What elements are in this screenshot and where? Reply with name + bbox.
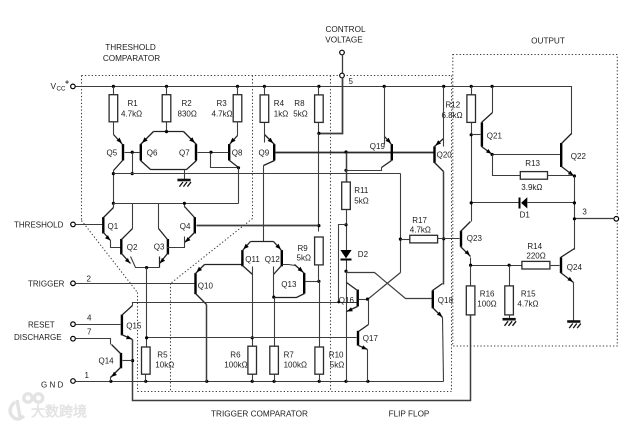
svg-text:5kΩ: 5kΩ (293, 110, 307, 119)
dotted box threshold comparator top edge (82, 75, 452, 77)
svg-text:7: 7 (87, 327, 92, 336)
junction Q16 base line (337, 301, 340, 304)
wire ground rail (76, 381, 444, 383)
wire Q23 collector up (471, 222, 472, 223)
resistor R4 1k (264, 87, 266, 95)
wire Q12 base to Q13 emitter (283, 265, 296, 266)
wire Q18 emitter down to flip flop ground return (443, 318, 444, 382)
svg-text:D2: D2 (358, 250, 369, 259)
wire Q23 emitter down to R14/R16 node (471, 258, 522, 266)
svg-text:100kΩ: 100kΩ (224, 360, 247, 369)
wire trigger to Q10 base (76, 283, 195, 285)
transistor Q10 (194, 273, 196, 294)
svg-text:Q12: Q12 (265, 255, 281, 264)
ground symbol under R15 (503, 318, 516, 321)
junction Q4 base node (317, 224, 320, 227)
wire Q24 emitter to ground (573, 283, 575, 322)
wire Q13 base to divider (306, 281, 319, 283)
junction Q12/Q13 collectors to R7 (272, 296, 275, 299)
wire Q19 emitter to R11 node (347, 168, 382, 171)
svg-text:4.7kΩ: 4.7kΩ (410, 225, 431, 234)
wire D2 node down to ground rail (346, 272, 348, 382)
svg-text:CONTROL: CONTROL (325, 25, 365, 34)
wire R9 to junction (318, 265, 320, 282)
wire Q17 collector up to Q16 base node (368, 300, 370, 325)
svg-text:5kΩ: 5kΩ (297, 253, 311, 262)
wire R14 right to Q24 base (550, 265, 560, 267)
wire Q4 emitter up to bus (184, 204, 186, 208)
resistor R7 100k (270, 346, 279, 374)
wire Q16 base right side (359, 299, 368, 301)
transistor Q16 (357, 290, 359, 307)
svg-text:R11: R11 (354, 186, 369, 195)
wire R6 bottom to ground rail (252, 375, 254, 382)
junction Q7/Q8 bases (209, 151, 212, 154)
svg-text:5kΩ: 5kΩ (354, 196, 368, 205)
wire Q1 collector to Q2 base (111, 241, 121, 248)
transistor Q23 (460, 231, 462, 247)
svg-text:Q13: Q13 (281, 280, 297, 289)
svg-text:R8: R8 (294, 99, 305, 108)
svg-text:R7: R7 (284, 350, 295, 359)
junction R11/D2 node to flip flop input (344, 223, 347, 226)
wire Q5 collector down to Q1 emitter (113, 171, 115, 208)
transistor Q3 (167, 239, 169, 254)
dotted channel left vertical (137, 293, 139, 392)
wire Q11 collector down to R6 (252, 267, 254, 347)
wire D2 node to Q18 base (347, 273, 432, 299)
resistor R12 6.8k (471, 87, 473, 95)
wire Q4 base to control voltage node (197, 225, 319, 227)
dotted flip flop left edge (330, 76, 332, 392)
transistor Q6 (140, 144, 142, 160)
svg-text:COMPARATOR: COMPARATOR (103, 54, 160, 63)
svg-text:1: 1 (85, 371, 90, 380)
junction Q4 emitter on bus (183, 202, 186, 205)
svg-text:+: + (65, 80, 69, 87)
svg-text:100Ω: 100Ω (477, 300, 496, 309)
wire down to R13 left (493, 155, 521, 176)
wire Q10 emitter to Q11 base (205, 264, 242, 266)
wire comparator base bus Q9-Q19-Q20 (276, 152, 434, 154)
svg-text:OUTPUT: OUTPUT (531, 37, 565, 46)
svg-text:Q2: Q2 (127, 243, 138, 252)
svg-text:R1: R1 (128, 99, 139, 108)
junction divider R9/R10/Q13 (317, 280, 320, 283)
svg-text:Q24: Q24 (567, 263, 583, 272)
wire R17 right to Q23 base (438, 238, 460, 240)
dotted channel right vertical (170, 284, 172, 392)
wire Q5/Q6 bases down to mirror line (132, 153, 134, 174)
wire Q14 emitter to ground rail (110, 377, 112, 382)
transistor Q14 (120, 353, 122, 368)
wire Q21 collector to rail (492, 87, 494, 113)
wire base bus tap down to R11 (346, 153, 348, 183)
svg-text:Q18: Q18 (438, 296, 454, 305)
svg-text:Q7: Q7 (179, 149, 190, 158)
junction Q5/Q6 bases (131, 151, 134, 154)
wire Q19 collector to rail (384, 87, 386, 145)
junction R16 top (469, 264, 472, 267)
svg-text:Q5: Q5 (107, 149, 118, 158)
wire Q6 collector to ground node (151, 169, 187, 171)
svg-text:Q22: Q22 (571, 152, 587, 161)
wire Q8 collector down to upper bus (238, 168, 240, 204)
wire Q11 base attach (241, 264, 243, 266)
svg-text:Q9: Q9 (259, 149, 270, 158)
transistor Q17 (357, 331, 359, 346)
junction Q21 emitter to R13 (491, 153, 494, 156)
svg-text:6.8kΩ: 6.8kΩ (442, 111, 463, 120)
junction Q5 collector / mirror line (112, 172, 115, 175)
resistor R3 4.7k (237, 87, 239, 95)
junction base bus to R11 (344, 150, 347, 153)
svg-text:R3: R3 (217, 99, 228, 108)
wire Q21 emitter to Q22 base and R13 (493, 154, 561, 156)
wire Q17 emitter to ground rail (367, 350, 369, 382)
svg-text:Q4: Q4 (180, 222, 191, 231)
svg-text:3: 3 (582, 208, 587, 217)
wire R13 right to Q22 emitter node (548, 175, 575, 177)
svg-text:5kΩ: 5kΩ (330, 360, 344, 369)
svg-text:FLIP FLOP: FLIP FLOP (389, 409, 430, 418)
diode D2 (340, 250, 351, 258)
junction R15 top (508, 264, 511, 267)
svg-text:R9: R9 (298, 244, 309, 253)
wire R5 bottom to ground rail (145, 375, 147, 382)
svg-text:R16: R16 (480, 289, 495, 298)
wire R10 to ground rail (319, 375, 321, 382)
junction R17 right / Q23 base / Q18 collector (442, 237, 445, 240)
svg-text:R12: R12 (446, 101, 461, 110)
svg-text:Q17: Q17 (363, 334, 379, 343)
svg-text:5: 5 (349, 77, 354, 86)
svg-text:R10: R10 (329, 350, 344, 359)
junction Q21 base node (470, 133, 473, 136)
transistor Q5 (122, 144, 124, 160)
svg-text:100kΩ: 100kΩ (284, 360, 307, 369)
svg-text:R15: R15 (521, 289, 536, 298)
wire Q5 emitter to R1 (113, 122, 115, 135)
svg-text:R17: R17 (412, 216, 427, 225)
resistor R17 4.7k (401, 239, 410, 241)
svg-text:CC: CC (57, 86, 66, 93)
transistor Q19 (391, 144, 393, 160)
watermark logo (10, 394, 43, 419)
dotted funnel left diagonal (82, 221, 138, 293)
wire tail down to R5 top (146, 268, 148, 347)
svg-text:R5: R5 (157, 350, 168, 359)
wire control voltage divider down to Q4 base node (318, 134, 320, 232)
wire Q1 emitter up (113, 204, 115, 208)
wire pin5 down to R8 bottom node (319, 78, 343, 134)
wire R7 bottom to ground rail (274, 375, 276, 382)
svg-text:830Ω: 830Ω (178, 110, 197, 119)
junction Q1 emitter node (112, 202, 115, 205)
wire Q11/Q12 emitter rail (251, 241, 274, 243)
transistor Q21 (481, 123, 483, 147)
wire Q12 collector down (273, 267, 275, 298)
resistor R1 4.7k (113, 87, 115, 95)
svg-text:Q3: Q3 (154, 243, 165, 252)
transistor Q11 (241, 250, 243, 266)
resistor R16 100 (466, 286, 475, 315)
transistor Q9 (273, 144, 275, 160)
svg-text:10kΩ: 10kΩ (155, 360, 174, 369)
svg-text:1kΩ: 1kΩ (274, 110, 288, 119)
svg-text:VOLTAGE: VOLTAGE (325, 36, 363, 45)
wire Q7-Q8 base tie (198, 152, 229, 154)
wire Q22 collector to rail corner (571, 135, 573, 137)
svg-text:R14: R14 (527, 242, 542, 251)
junction R5 tap (145, 336, 148, 339)
svg-text:TRIGGER COMPARATOR: TRIGGER COMPARATOR (211, 409, 308, 418)
wire R15 top (509, 266, 511, 286)
svg-text:3.9kΩ: 3.9kΩ (521, 183, 542, 192)
svg-text:RESET: RESET (28, 321, 55, 330)
dotted main box bottom edge (138, 391, 452, 393)
svg-text:Q11: Q11 (245, 255, 260, 264)
wire R8 bottom (318, 123, 320, 134)
resistor R11 5k (342, 182, 351, 210)
resistor R6 100k (248, 346, 257, 374)
transistor Q18 (432, 291, 434, 309)
svg-text:R6: R6 (230, 350, 241, 359)
diode D1 (472, 202, 520, 204)
wire D2 cathode to node (346, 261, 348, 272)
svg-text:4.7kΩ: 4.7kΩ (121, 110, 142, 119)
resistor R13 3.9k (520, 172, 547, 180)
wire Q3 collector up to bus (158, 204, 160, 229)
transistor Q24 (560, 257, 562, 273)
svg-text:4.7kΩ: 4.7kΩ (517, 300, 538, 309)
transistor Q22 (560, 143, 562, 167)
junction tail to R5 (145, 266, 148, 269)
wire Q21 base (472, 134, 481, 136)
svg-text:220Ω: 220Ω (526, 251, 545, 260)
wire Q15 emitter down and right to R16 bottom (133, 315, 471, 401)
svg-text:4: 4 (87, 314, 92, 323)
transistor Q12 (281, 250, 283, 266)
wire Q20 emitter down to R17/Q23/Q18 (443, 172, 445, 285)
dotted output box (453, 55, 618, 347)
svg-text:THRESHOLD: THRESHOLD (14, 221, 64, 230)
svg-text:R13: R13 (525, 159, 540, 168)
node pin 5 on boundary (340, 73, 345, 78)
svg-text:R4: R4 (274, 99, 285, 108)
svg-text:R2: R2 (182, 99, 193, 108)
wire Q24 collector up to pin3 node (574, 249, 576, 257)
svg-text:Q21: Q21 (487, 132, 503, 141)
terminal CONTROL VOLTAGE pin 5 (340, 50, 345, 55)
wire diagonal to Q16 base node (368, 273, 401, 300)
svg-text:Q10: Q10 (198, 281, 214, 290)
wire Q10 collector to ground rail (206, 305, 208, 382)
svg-text:4.7kΩ: 4.7kΩ (212, 110, 233, 119)
wire Q2 emitter to tail rail (131, 257, 160, 268)
svg-text:DISCHARGE: DISCHARGE (14, 333, 62, 342)
svg-text:THRESHOLD: THRESHOLD (105, 43, 156, 52)
junction D2 to Q18 base line (344, 270, 347, 273)
svg-text:Q8: Q8 (232, 149, 243, 158)
junction Q11 collector / Q17 base line (251, 336, 254, 339)
svg-text:D1: D1 (520, 211, 531, 220)
junction D1 cathode (573, 201, 576, 204)
junction Q14 base on Q15 emitter (131, 359, 134, 362)
resistor R5 10k (145, 346, 147, 348)
wire pin 3 (575, 218, 615, 220)
transistor Q4 (194, 217, 196, 233)
transistor Q15 (121, 315, 123, 336)
wire Q22 emitter node down to pin3 node (574, 177, 576, 250)
wire divider to R10 (319, 282, 321, 347)
transistor Q13 (303, 273, 305, 294)
junction Q8 collector diode connection (237, 166, 240, 169)
transistor Q20 (433, 146, 435, 162)
wire Q2 collector up to bus (132, 204, 134, 229)
svg-text:TRIGGER: TRIGGER (28, 280, 65, 289)
ground symbol under Q24 (567, 320, 580, 323)
dotted funnel right diagonal (171, 219, 253, 284)
wire Q9 collector drop to Q11/Q12 emitter rail (263, 166, 265, 242)
wire reset to Q15 base (76, 324, 121, 326)
wire discharge to Q14 collector (76, 339, 111, 345)
wire Q4 collector to Q3 base (167, 237, 185, 248)
wire Q9 emitter to R4 (264, 123, 266, 143)
wire R11/D2 node to Q16 base line (339, 225, 347, 303)
wire Q14 base to Q15 emitter (123, 360, 133, 362)
svg-text:Q19: Q19 (370, 142, 386, 151)
svg-text:Q16: Q16 (339, 296, 355, 305)
svg-text:2: 2 (87, 275, 92, 284)
svg-text:Q23: Q23 (467, 234, 483, 243)
svg-text:大数跨境: 大数跨境 (31, 404, 87, 420)
resistor R14 220 (522, 261, 550, 269)
svg-text:Q15: Q15 (126, 322, 142, 331)
ground symbol under Q7 (184, 170, 186, 180)
wire Q20 collector to rail (443, 87, 445, 147)
svg-text:Q14: Q14 (99, 356, 115, 365)
dotted main box right edge (451, 76, 453, 392)
wire Q5-Q6 base tie (125, 152, 140, 154)
transistor Q1 (102, 217, 104, 233)
junction D1 anode (470, 201, 473, 204)
junction Q19 emitter / R11 (344, 169, 347, 172)
resistor R8 5k (318, 87, 320, 95)
wire Q15 collector to flip-flop line (133, 303, 357, 306)
wire threshold to Q1 base (76, 224, 103, 226)
resistor R10 5k (315, 347, 324, 374)
wire collector node down to R7 (274, 298, 276, 347)
junction pin 3 (573, 217, 576, 220)
wire R5 top tap to Q17 base line (147, 337, 357, 339)
transistor Q2 (120, 239, 122, 254)
wire Q6 emitter rail to R2 (154, 131, 184, 133)
wire VCC top rail (76, 87, 572, 135)
junction Q16 base / Q17 collector / comparator output (366, 298, 369, 301)
wire Q7/Q8 base down to Q8 collector (211, 153, 239, 168)
svg-text:Q1: Q1 (108, 222, 119, 231)
wire R11 to D2 (346, 210, 348, 251)
dotted threshold comparator right vertical (252, 76, 254, 219)
resistor R9 5k (315, 237, 324, 265)
svg-text:Q6: Q6 (147, 149, 158, 158)
junction R17 left (399, 238, 402, 241)
wire Q13 collector to node (274, 294, 305, 298)
junction Q22 emitter / R13 (573, 174, 576, 177)
wire comparator output down through R17 left to Q16 base (400, 174, 402, 273)
resistor R2 830 (166, 87, 168, 95)
wire R12 bottom to Q21 base and Q23 collector (471, 123, 473, 222)
wire upper bus Q1/Q2/Q3/Q4 (114, 203, 239, 205)
wire Q8 emitter to R3 (237, 122, 239, 136)
wire R16 top (470, 266, 472, 286)
junction R8/pin5 (317, 132, 320, 135)
resistor R15 4.7k (505, 286, 514, 315)
wire R15 to ground (509, 315, 511, 319)
wire Q3 emitter to tail rail (159, 257, 161, 268)
svg-text:G N D: G N D (41, 380, 63, 389)
transistor Q7 (195, 144, 197, 160)
dotted box left edge (81, 76, 83, 221)
transistor Q8 (228, 144, 230, 160)
wire mirror line / threshold comparator output to flip flop (114, 173, 401, 175)
wire control voltage to boundary (342, 55, 344, 74)
svg-text:Q20: Q20 (437, 151, 453, 160)
